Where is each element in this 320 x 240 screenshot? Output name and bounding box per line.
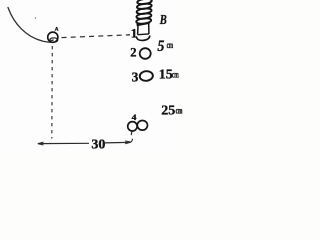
svg-text:3: 3 bbox=[132, 69, 139, 84]
svg-text:15: 15 bbox=[159, 68, 173, 83]
svg-text:25: 25 bbox=[161, 104, 175, 119]
curved ramp bbox=[8, 8, 58, 43]
ball 3 bbox=[139, 71, 153, 82]
svg-text:cm: cm bbox=[167, 41, 174, 51]
speckle dot bbox=[35, 17, 36, 18]
dashed horizontal trajectory line bbox=[62, 35, 131, 38]
svg-text:cm: cm bbox=[172, 70, 179, 80]
ball A bbox=[48, 32, 58, 42]
ball 2 bbox=[140, 48, 151, 59]
svg-text:cm: cm bbox=[176, 106, 183, 116]
ball pair 4 right bbox=[137, 121, 147, 131]
svg-text:1: 1 bbox=[131, 25, 138, 40]
dimension line right segment bbox=[105, 141, 129, 144]
dimension line left segment bbox=[38, 142, 89, 144]
svg-text:30: 30 bbox=[91, 137, 105, 152]
svg-text:5: 5 bbox=[157, 38, 164, 55]
svg-text:A: A bbox=[55, 27, 59, 33]
svg-text:B: B bbox=[159, 13, 167, 28]
svg-text:2: 2 bbox=[130, 46, 136, 60]
spring bbox=[136, 0, 152, 24]
arrow tip curl bbox=[131, 139, 133, 143]
dimension line left arrow bbox=[38, 142, 44, 145]
dimension line right arrow bbox=[125, 141, 131, 144]
ball pair 4 left bbox=[128, 122, 137, 131]
weight cylinder at position 1 bbox=[136, 23, 150, 41]
dashed vertical trajectory line bbox=[51, 46, 54, 139]
stem under ball 4 bbox=[130, 132, 133, 136]
